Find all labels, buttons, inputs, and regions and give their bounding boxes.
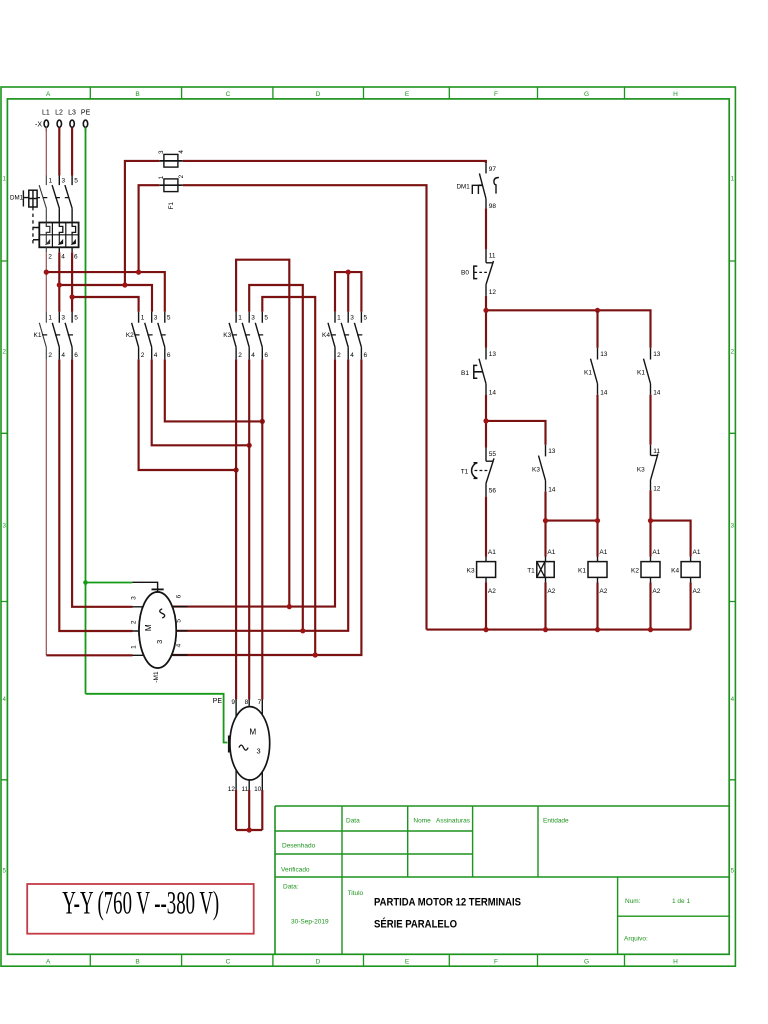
DM1 overload heater pole3: [72, 223, 76, 235]
wire DM1 pole1 to K1 pin1 (thin): [45, 252, 47, 311]
pushbutton B0 dashed link: [474, 271, 489, 273]
wire seal-in bus T1/K1: [546, 520, 598, 522]
terminal pin stubs: [59, 127, 85, 131]
DM1 operator box: [29, 190, 37, 207]
svg-text:DM1: DM1: [10, 195, 24, 202]
node K2-K3 junction pin4: [247, 443, 252, 448]
svg-text:A: A: [46, 91, 51, 98]
svg-text:4: 4: [731, 696, 735, 703]
svg-text:1: 1: [158, 175, 165, 179]
svg-text:3: 3: [61, 315, 65, 322]
node M1 terminal6 junction: [287, 604, 292, 609]
row tick marks left: [1, 261, 7, 780]
wire K1 pole1 down to motor M1 terminal 1 (thin vertical): [45, 359, 47, 655]
svg-text:2: 2: [238, 352, 242, 359]
wire K1 pole2 down to motor M1 terminal 2: [59, 359, 132, 631]
svg-text:-X: -X: [35, 122, 42, 129]
svg-text:K3: K3: [467, 567, 475, 574]
wire DM1 pole3 to K1 pin5: [71, 252, 73, 311]
svg-text:14: 14: [600, 390, 608, 397]
contactor K3 mechanism dashes: [232, 334, 263, 336]
wire K4 pin3 to bridge: [347, 272, 349, 312]
wire coil K3 to bottom rail: [485, 583, 487, 630]
svg-text:5: 5: [167, 315, 171, 322]
svg-text:6: 6: [74, 352, 78, 359]
DM1 pole 1 contact: [39, 176, 46, 223]
contactor K1 pole3 contact: [65, 312, 72, 360]
svg-text:E: E: [405, 91, 410, 98]
svg-text:A1: A1: [547, 549, 555, 556]
svg-text:B: B: [135, 91, 139, 98]
svg-text:A1: A1: [488, 549, 496, 556]
svg-text:4: 4: [251, 352, 255, 359]
wire M1 terminal 5 to K4 pin4: [176, 359, 348, 630]
wire K3 pin1 bridge to M1 terminal 6: [236, 260, 289, 607]
svg-text:B0: B0: [461, 269, 469, 276]
wire DM1 aux to B0: [485, 208, 487, 249]
svg-text:3: 3: [257, 747, 261, 756]
DM1 aux contact 97-98: [479, 163, 486, 208]
svg-text:K1: K1: [578, 567, 586, 574]
contactor K3 pin labels bottom 2 4 6: [238, 352, 268, 359]
svg-text:3: 3: [158, 150, 165, 154]
node K2 coil junction: [648, 518, 653, 523]
svg-text:1: 1: [141, 315, 145, 322]
contactor K1 mechanism dashes: [42, 334, 73, 336]
pushbutton B1 actuator: [474, 365, 478, 378]
wire L3 terminal to DM1 pin5: [71, 127, 73, 175]
svg-text:-M1: -M1: [153, 671, 160, 683]
svg-text:1: 1: [731, 176, 735, 183]
svg-text:K2: K2: [126, 332, 134, 339]
svg-text:2: 2: [337, 352, 341, 359]
node rail T1: [543, 627, 548, 632]
svg-text:5: 5: [74, 177, 78, 184]
svg-text:11: 11: [653, 448, 660, 455]
svg-text:14: 14: [489, 390, 497, 397]
svg-text:Data: Data: [346, 818, 360, 825]
svg-text:14: 14: [548, 487, 556, 494]
svg-text:9: 9: [231, 699, 235, 706]
svg-text:97: 97: [489, 166, 497, 173]
svg-text:14: 14: [653, 390, 661, 397]
svg-text:13: 13: [548, 448, 556, 455]
svg-text:F: F: [494, 91, 498, 98]
svg-text:6: 6: [264, 352, 268, 359]
wire K2 pole3 bottom to K3 winding feed: [165, 359, 262, 421]
wire M1 terminal 4 to K4 pin6: [172, 359, 361, 655]
contactor K4 pole3 contact: [354, 312, 361, 360]
svg-text:Verificado: Verificado: [281, 867, 310, 874]
svg-text:C: C: [226, 959, 231, 966]
M1 pin stubs right cover: [139, 592, 176, 668]
svg-text:T1: T1: [461, 469, 469, 476]
wire coil K2 to bottom rail: [649, 583, 651, 630]
wire coil T1 to bottom rail: [544, 583, 546, 630]
node K1 branch junction: [595, 308, 600, 313]
terminal L2: [57, 120, 61, 127]
svg-text:Data:: Data:: [283, 884, 299, 891]
coil K4 pins: [690, 557, 692, 583]
svg-text:1: 1: [130, 645, 137, 649]
svg-text:6: 6: [176, 594, 183, 598]
wire control bus row2: [486, 310, 651, 348]
wire B0 to node and B1: [485, 296, 487, 348]
timer T1 actuator arc: [472, 463, 478, 479]
DM1 overload block dividers: [39, 223, 78, 248]
svg-text:7: 7: [258, 699, 262, 706]
DM1 pole 2 contact: [52, 176, 59, 223]
terminal L1: [44, 120, 48, 127]
svg-text:2: 2: [178, 174, 185, 178]
pushbutton B1 NO contact 13-14: [479, 348, 486, 395]
svg-text:2: 2: [48, 254, 52, 261]
svg-text:1: 1: [2, 176, 6, 183]
M2 frame terminal bar: [228, 736, 230, 753]
wire T1 to K3 coil: [485, 497, 487, 557]
wire fuse lower right to control left rail: [183, 185, 427, 629]
wire M2 pin12 down to star bar: [235, 790, 237, 830]
svg-text:H: H: [673, 91, 678, 98]
title block row lines: [275, 831, 729, 877]
terminal PE: [83, 120, 87, 127]
M1 pin stubs left: [133, 607, 147, 656]
svg-text:A2: A2: [547, 588, 555, 595]
wire K1 pole3 down to motor M1 terminal 3: [72, 359, 132, 606]
node M2 star junction: [247, 827, 252, 832]
title block num/arquivo divider: [618, 915, 730, 917]
svg-text:10: 10: [254, 786, 262, 793]
svg-text:L3: L3: [68, 110, 76, 117]
svg-text:PE: PE: [81, 110, 91, 117]
svg-text:K1: K1: [34, 332, 42, 339]
contactor K2 pin labels top 1 3 5: [141, 315, 171, 322]
row numbers left: [2, 176, 6, 875]
svg-text:11: 11: [489, 253, 496, 260]
wire K4 star bridge: [335, 272, 361, 312]
row tick marks right: [729, 261, 735, 780]
contactor K1 pole2 contact: [52, 312, 59, 360]
svg-text:Titulo: Titulo: [348, 890, 364, 897]
svg-text:4: 4: [61, 352, 65, 359]
svg-text:A1: A1: [599, 549, 607, 556]
M1 frame pin black: [132, 582, 157, 593]
svg-text:B: B: [135, 959, 139, 966]
svg-text:K3: K3: [532, 466, 540, 473]
svg-text:K4: K4: [322, 332, 330, 339]
svg-text:6: 6: [364, 352, 368, 359]
M2 pin labels bottom 12 11 10: [228, 786, 262, 793]
svg-text:5: 5: [2, 868, 6, 875]
svg-text:11: 11: [241, 786, 248, 793]
svg-text:13: 13: [489, 351, 497, 358]
wire PE run to M2 (green): [86, 694, 228, 743]
contactor K4 mechanism dashes: [331, 334, 363, 336]
svg-text:A2: A2: [693, 588, 701, 595]
svg-text:1: 1: [337, 315, 341, 322]
svg-text:3: 3: [251, 315, 255, 322]
column tick marks top: [90, 87, 624, 99]
contactor K1 pin labels top 1 3 5: [48, 315, 78, 322]
M2 pin stubs bottom: [236, 768, 262, 790]
wire control bottom rail: [427, 629, 691, 631]
svg-text:4: 4: [178, 150, 185, 154]
svg-text:13: 13: [600, 351, 608, 358]
M2 pin stubs top: [236, 700, 262, 719]
svg-text:Num:: Num:: [625, 898, 641, 905]
svg-text:A: A: [46, 959, 51, 966]
DM1 overload trip flag pole1: [46, 235, 49, 245]
svg-text:A2: A2: [599, 588, 607, 595]
svg-text:L2: L2: [55, 110, 63, 117]
node rail K1: [595, 627, 600, 632]
svg-text:G: G: [584, 91, 589, 98]
node B0 output junction: [483, 308, 488, 313]
DM1 overload trip flag pole3: [72, 235, 75, 245]
svg-text:Assinaturas: Assinaturas: [436, 818, 471, 825]
M1 frame terminal bar: [152, 588, 164, 590]
title block outline: [275, 806, 729, 954]
svg-text:C: C: [226, 91, 231, 98]
svg-text:3: 3: [350, 315, 354, 322]
DM1 aux thermal hook symbol: [494, 178, 499, 194]
svg-text:4: 4: [2, 696, 6, 703]
svg-text:K2: K2: [631, 567, 639, 574]
svg-text:2: 2: [2, 349, 6, 356]
column letters top: [46, 91, 678, 98]
wire K3 pole3 bottom to motor M2 pin 7: [261, 359, 263, 699]
motor M2 body: [230, 707, 270, 780]
svg-text:1 de 1: 1 de 1: [672, 898, 690, 905]
node PE tap junction: [83, 580, 88, 585]
pushbutton B0 actuator: [474, 266, 478, 279]
pushbutton B1 plunger link: [474, 371, 483, 373]
DM1 trip dashed link vertical: [32, 207, 34, 244]
coil T1 pins: [545, 557, 547, 583]
terminal L3: [70, 120, 74, 127]
svg-text:8: 8: [245, 699, 249, 706]
svg-text:K3: K3: [637, 467, 645, 474]
wire K2 pole2 bottom to K3 winding feed: [152, 359, 250, 445]
wire DM1 pole2 to K1 pin3: [58, 252, 60, 311]
wire M1 terminal 6 to K4 pin2: [172, 359, 335, 606]
wire K3 pole2 bottom to motor M2 pin 8: [248, 359, 250, 699]
terminal block -X labels: [42, 110, 91, 117]
svg-text:12: 12: [228, 786, 236, 793]
coil K3 pins: [485, 557, 487, 583]
svg-text:12: 12: [489, 289, 497, 296]
DM1 pin labels 1 3 5: [49, 177, 79, 184]
coil K4 box: [681, 562, 700, 578]
timer contact T1 55-56: [486, 448, 494, 497]
wire M1 terminal 1 horizontal: [46, 654, 132, 656]
column tick marks bottom: [90, 954, 624, 966]
node K1 coil junction: [595, 518, 600, 523]
node K4 bridge junction: [346, 270, 351, 275]
svg-text:Desenhado: Desenhado: [282, 843, 316, 850]
svg-text:Entidade: Entidade: [543, 818, 569, 825]
svg-text:98: 98: [489, 203, 497, 210]
svg-text:1: 1: [238, 315, 242, 322]
svg-text:K1: K1: [637, 369, 645, 376]
DM1 pole bottom stubs: [59, 247, 72, 252]
svg-text:4: 4: [154, 352, 158, 359]
contactor K4 pin labels bottom 2 4 6: [337, 352, 367, 359]
contactor K2 pole3 contact: [158, 312, 165, 360]
wire PE tap to M1 frame (green): [86, 582, 133, 584]
row numbers right: [731, 176, 735, 875]
contactor K3 pin labels top 1 3 5: [238, 315, 268, 322]
svg-text:K3: K3: [223, 332, 231, 339]
node B1 output junction: [483, 418, 488, 423]
fuse F1 pins 3-4 (upper) box: [164, 154, 178, 167]
wire K1 no.2 to K3 break: [649, 395, 651, 445]
contactor K4 pole1 contact: [328, 312, 335, 360]
fuse F1 pins 1-2 (lower) box: [164, 179, 178, 192]
node rail K3: [483, 627, 488, 632]
node bus1 pole1 junction: [44, 270, 49, 275]
svg-text:5: 5: [74, 315, 78, 322]
wire fuse upper right to DM1 aux contact: [183, 161, 486, 163]
M1 pin stubs right: [170, 607, 188, 655]
svg-text:G: G: [584, 959, 589, 966]
svg-text:1: 1: [49, 177, 53, 184]
wire bus2 L2 phase: [59, 285, 152, 312]
DM1 overload trip flag pole2: [59, 235, 62, 245]
wire K3 break to K2 coil: [649, 490, 651, 556]
DM1 operator handle bar: [23, 190, 28, 206]
DM1 mechanism dashed link: [37, 197, 69, 199]
wire K2/K4 branch bus: [651, 521, 691, 557]
fuse F1 lower element wire: [159, 184, 182, 186]
wire K2 pole1 bottom to K3 winding feed: [139, 359, 237, 470]
wire M2 star bar: [236, 829, 262, 831]
contactor K2 mechanism dashes: [134, 334, 165, 336]
svg-text:B1: B1: [461, 370, 469, 377]
svg-text:Y-Y (760 V --380 V): Y-Y (760 V --380 V): [62, 886, 219, 922]
svg-text:12: 12: [653, 485, 661, 492]
wire K3 pole1 bottom to motor M2 pin 9: [235, 359, 237, 699]
coil K1 box: [588, 562, 607, 578]
svg-text:E: E: [405, 959, 410, 966]
wire K3 aux to T1 coil: [544, 492, 546, 557]
svg-text:2: 2: [141, 352, 145, 359]
svg-text:1: 1: [48, 315, 52, 322]
DM1 pin labels 2 4 6: [48, 254, 78, 261]
node fuse upper tap on bus2: [122, 282, 127, 287]
svg-text:56: 56: [489, 488, 497, 495]
wire B1 to T1 contact: [485, 395, 487, 448]
DM1 overload heater pole1: [46, 223, 50, 235]
svg-text:D: D: [316, 91, 321, 98]
svg-text:A2: A2: [652, 588, 660, 595]
wire L1 terminal to DM1 pin1 (thin net): [45, 127, 47, 175]
svg-text:Nome: Nome: [413, 818, 431, 825]
frame inner border: [7, 99, 729, 954]
node K2-K3 junction pin6: [260, 419, 265, 424]
motor M1 body: [139, 592, 176, 668]
svg-text:3: 3: [155, 640, 164, 644]
svg-text:2: 2: [48, 352, 52, 359]
svg-text:6: 6: [74, 254, 78, 261]
coil K3 box: [477, 562, 496, 578]
wire K3 pin3 bridge to M1 terminal 5: [249, 285, 303, 631]
DM1 aux actuator bracket: [472, 185, 478, 194]
wire bus3 L3 phase: [72, 297, 139, 312]
wire coil K4 to bottom rail: [690, 583, 692, 630]
svg-text:5: 5: [264, 315, 268, 322]
fuse F1 upper element wire: [159, 160, 182, 162]
M1 sine wave (rotated): [160, 609, 165, 618]
DM1 trip link ticks to overload: [33, 228, 39, 240]
svg-text:K1: K1: [584, 369, 592, 376]
wire branch bus to K3 aux: [486, 421, 546, 445]
wire K3 pin5 bridge to M1 terminal 4: [262, 297, 315, 655]
svg-text:4: 4: [350, 352, 354, 359]
wire PE green vertical rail: [85, 127, 87, 693]
title block upper verticals: [342, 806, 538, 877]
svg-text:M: M: [249, 727, 256, 736]
svg-text:A1: A1: [652, 549, 660, 556]
svg-text:4: 4: [176, 643, 183, 647]
node bus3 pole3 junction: [70, 294, 75, 299]
timer T1 dashed link: [475, 470, 489, 472]
pushbutton B0 NC contact 11-12: [486, 249, 494, 295]
wire L2 terminal to DM1 pin3: [58, 127, 60, 175]
DM1 aux actuator link: [478, 184, 483, 186]
svg-text:3: 3: [2, 523, 6, 530]
wire bus to K1 contact: [596, 310, 598, 348]
svg-text:5: 5: [731, 868, 735, 875]
auxiliary contact K1 no.2 13-14: [644, 348, 651, 395]
svg-text:6: 6: [167, 352, 171, 359]
wire bus1 L1 phase: [46, 272, 165, 312]
svg-text:55: 55: [489, 451, 497, 458]
svg-text:PE: PE: [213, 698, 223, 705]
contactor K3 pole2 contact: [242, 312, 249, 360]
svg-text:5: 5: [176, 619, 183, 623]
contactor K4 pin labels top 1 3 5: [337, 315, 367, 322]
contactor K3 pole3 contact: [255, 312, 262, 360]
contactor K1 pole1 contact (thin): [39, 312, 46, 360]
node rail K2: [648, 627, 653, 632]
node bus2 pole2 junction: [57, 282, 62, 287]
svg-text:K4: K4: [671, 567, 679, 574]
node fuse lower tap on bus1: [136, 270, 141, 275]
svg-text:2: 2: [130, 620, 137, 624]
svg-text:4: 4: [61, 254, 65, 261]
M2 pin labels top 9 8 7: [231, 699, 261, 706]
wire M2 pin10 down to star bar: [261, 790, 263, 830]
svg-text:M: M: [144, 624, 153, 631]
node M1 terminal4 junction: [313, 652, 318, 657]
svg-text:F1: F1: [168, 202, 175, 210]
title block header labels: [281, 818, 690, 943]
DM1 overload heater pole2: [59, 223, 63, 235]
svg-text:DM1: DM1: [457, 183, 471, 190]
node K2-K3 junction pin2: [234, 467, 239, 472]
contactor K3 pole1 contact: [229, 312, 236, 360]
coil K2 box: [641, 562, 660, 578]
wire M2 pin11 down to star bar: [248, 790, 250, 830]
svg-text:5: 5: [364, 315, 368, 322]
DM1 pole 3 contact: [65, 176, 72, 223]
svg-text:PARTIDA MOTOR 12 TERMINAIS: PARTIDA MOTOR 12 TERMINAIS: [374, 897, 521, 909]
contactor K2 pin labels bottom 2 4 6: [141, 352, 171, 359]
svg-text:SÉRIE PARALELO: SÉRIE PARALELO: [374, 918, 457, 931]
contactor K2 pole2 contact: [145, 312, 152, 360]
coil K1 pins: [597, 557, 599, 583]
